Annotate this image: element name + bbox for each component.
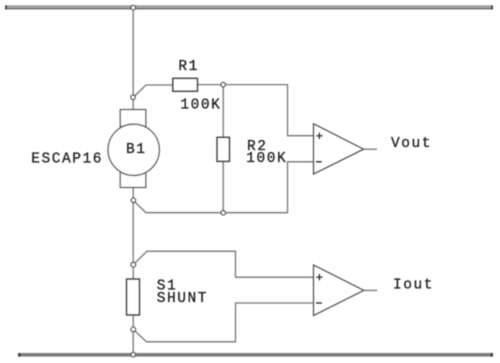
- bottom ground rail: [18, 353, 493, 357]
- node: B1 bottom junction: [131, 198, 136, 203]
- svg-text:ESCAP16: ESCAP16: [31, 152, 103, 168]
- motor B1 terminal bottom: [120, 171, 146, 188]
- resistor S1 (shunt): [127, 279, 140, 315]
- wire: S1 bottom to ground rail (vertical): [132, 315, 134, 355]
- wire: node at B1 top diagonal to R1 left horizontal: [133, 85, 173, 97]
- svg-text:B1: B1: [126, 142, 147, 158]
- node A: R1/R2 junction: [221, 82, 226, 87]
- svg-text:SHUNT: SHUNT: [157, 291, 208, 307]
- wire: top rail to B1 top (vertical): [132, 8, 134, 110]
- wire: U2 output: [364, 289, 378, 291]
- wire: U1 output: [364, 148, 377, 150]
- node: S1 bottom junction: [131, 327, 136, 332]
- node: S1 top junction: [131, 262, 136, 267]
- node: R2 bottom junction: [221, 210, 226, 215]
- wire: S1 bottom node diagonal to U2 - input: [133, 303, 313, 342]
- svg-text:100K: 100K: [180, 97, 221, 113]
- svg-text:100K: 100K: [246, 151, 287, 167]
- top supply rail: [5, 5, 493, 9]
- svg-text:R1: R1: [178, 59, 199, 75]
- node: top rail tap: [131, 5, 136, 10]
- op-amp U1: [314, 124, 364, 174]
- node: B1 top junction: [131, 95, 136, 100]
- motor B1 terminal top: [120, 110, 146, 127]
- wire: R1 right to corner then down to U1 + input: [198, 85, 314, 136]
- motor B1 body circle: [108, 124, 159, 175]
- svg-text:Vout: Vout: [391, 136, 432, 152]
- svg-text:Iout: Iout: [393, 277, 434, 293]
- wire: S1 top node diagonal to U2 + input: [133, 251, 313, 277]
- op-amp U2: [314, 265, 364, 316]
- node: ground rail tap: [131, 352, 136, 357]
- resistor R2: [217, 137, 230, 161]
- resistor R1: [173, 78, 198, 91]
- wire: B1 bottom node diagonal to horizontal run then up to U1 - input: [133, 162, 313, 213]
- wire: node A down through R2 position: [222, 85, 224, 213]
- wire: B1 bottom rect to S1 top (vertical): [132, 188, 134, 280]
